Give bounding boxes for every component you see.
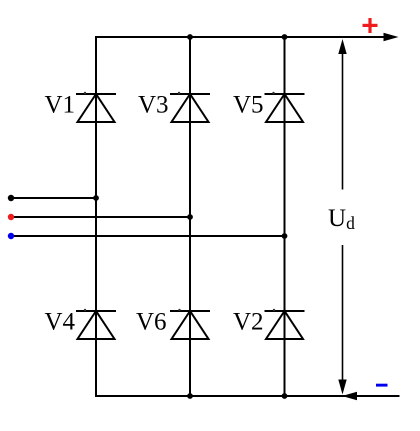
- Ud measurement arrow upper segment: [342, 52, 344, 190]
- diode V4: [76, 311, 116, 339]
- minus label (blue): [376, 384, 388, 387]
- svg-text:V4: V4: [45, 309, 76, 336]
- Ud measurement arrow lower segment: [342, 245, 344, 382]
- terminal phase B (red dot): [8, 214, 14, 220]
- wire branch 1 vertical: [95, 36, 97, 397]
- junction bottom rail / branch 3: [282, 393, 288, 399]
- junction bottom rail / branch 2: [187, 393, 193, 399]
- wire branch 3 vertical: [284, 36, 286, 397]
- wire phase A input: [11, 197, 96, 199]
- svg-text:V5: V5: [233, 92, 264, 119]
- wire phase C input: [11, 235, 285, 237]
- wire phase B input: [11, 216, 190, 218]
- wire top rail (+ bus): [95, 36, 386, 38]
- junction top rail / branch 2: [187, 34, 193, 40]
- svg-text:V1: V1: [45, 92, 76, 119]
- junction branch2/phase B: [187, 214, 193, 220]
- diode V2: [265, 311, 305, 339]
- terminal phase C (blue dot): [8, 233, 14, 239]
- diode V1: [76, 94, 116, 122]
- svg-text:V3: V3: [138, 92, 169, 119]
- plus label (red): [363, 18, 378, 33]
- arrowhead on minus bus pointing left: [342, 392, 357, 400]
- junction top rail / branch 3: [282, 34, 288, 40]
- arrowhead up at top rail: [338, 39, 346, 54]
- junction branch3/phase C: [282, 233, 288, 239]
- wire bottom rail (- bus): [95, 395, 400, 397]
- diode V3: [170, 94, 210, 122]
- diode V5: [265, 94, 305, 122]
- junction branch1/phase A: [93, 195, 99, 201]
- arrowhead + output pointing right: [384, 33, 399, 41]
- terminal phase A (black dot): [8, 195, 14, 201]
- svg-text:V6: V6: [136, 309, 167, 336]
- svg-text:V2: V2: [233, 309, 264, 336]
- arrowhead down at bottom rail: [338, 380, 346, 395]
- diode V6: [170, 311, 210, 339]
- wire branch 2 vertical: [189, 36, 191, 397]
